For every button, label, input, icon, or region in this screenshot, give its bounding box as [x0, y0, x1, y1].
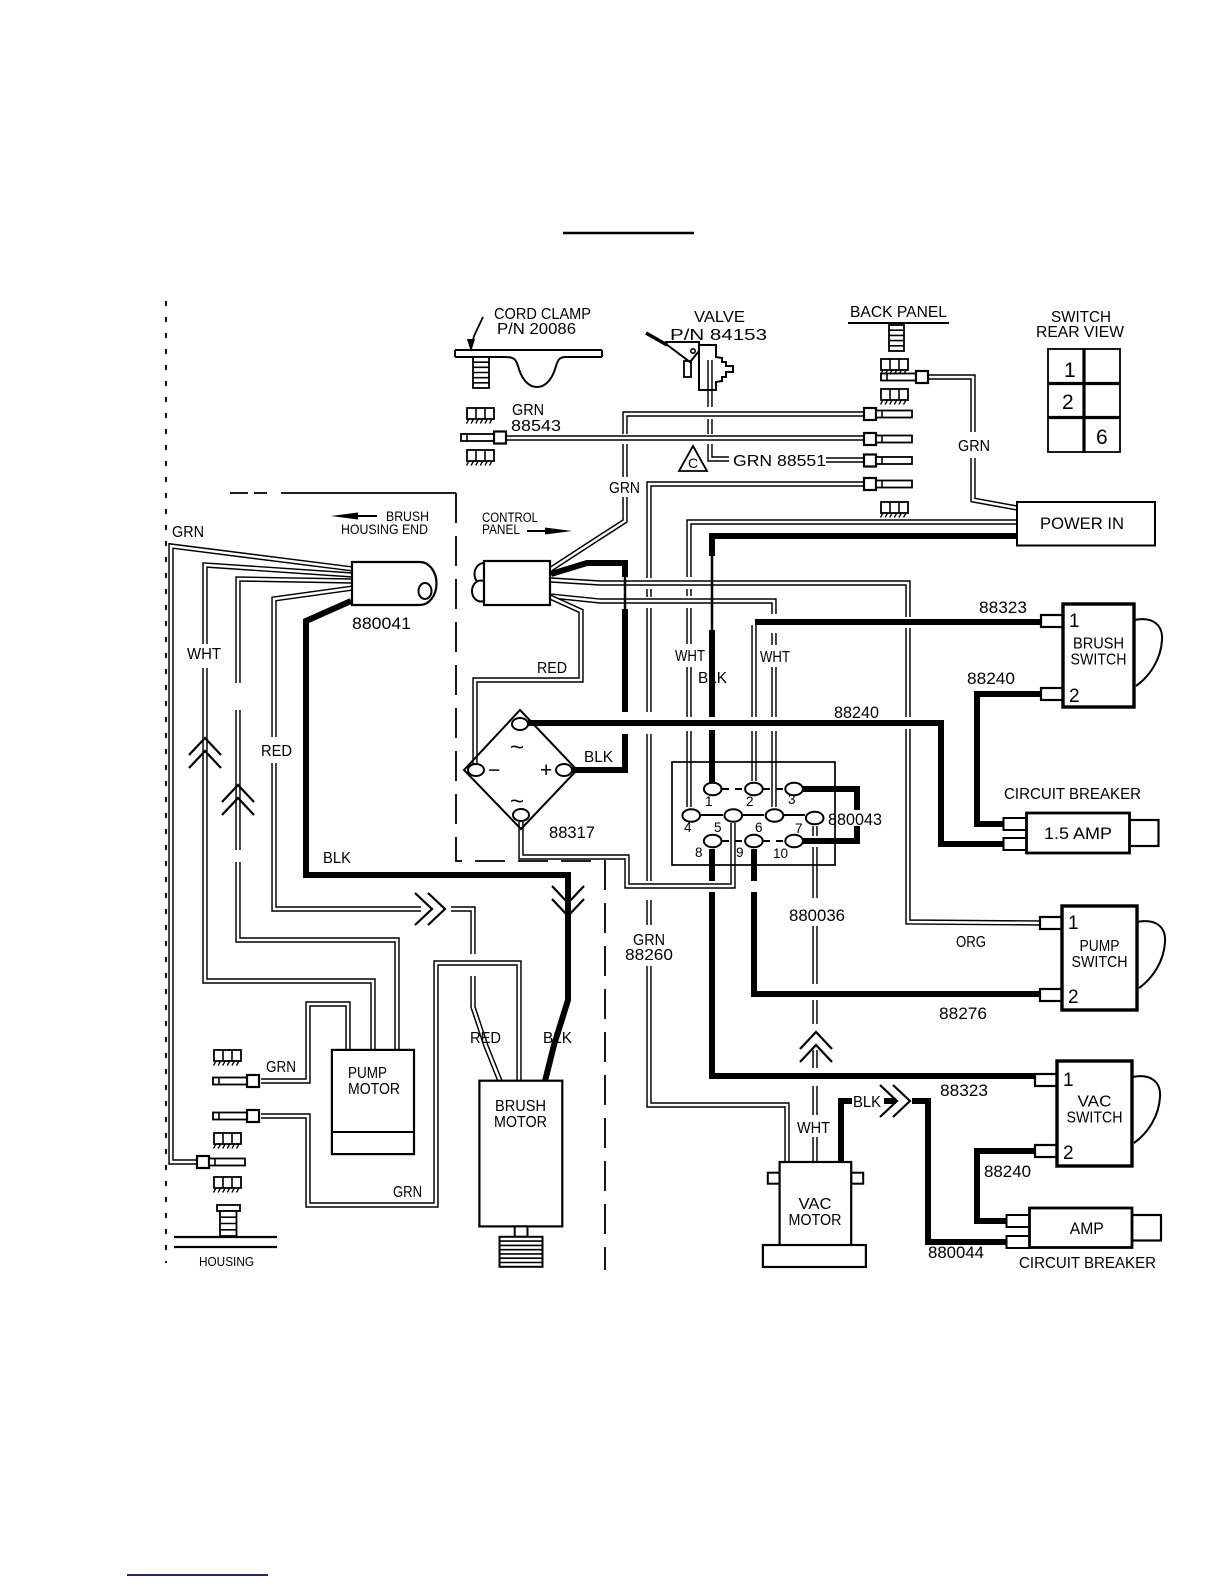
- svg-text:6: 6: [1096, 426, 1108, 449]
- svg-text:1: 1: [1064, 359, 1076, 382]
- svg-text:SWITCH: SWITCH: [1067, 1110, 1123, 1127]
- svg-text:2: 2: [1062, 391, 1074, 414]
- svg-text:ORG: ORG: [956, 934, 986, 951]
- svg-text:BLK: BLK: [853, 1094, 881, 1111]
- svg-text:GRN: GRN: [266, 1059, 296, 1076]
- svg-text:MOTOR: MOTOR: [789, 1212, 842, 1229]
- svg-text:GRN: GRN: [958, 438, 990, 455]
- svg-text:7: 7: [795, 821, 803, 836]
- svg-text:880036: 880036: [789, 907, 845, 925]
- svg-text:HOUSING: HOUSING: [199, 1254, 254, 1269]
- svg-text:9: 9: [736, 845, 744, 860]
- svg-text:PANEL: PANEL: [482, 522, 520, 537]
- svg-text:88323: 88323: [979, 599, 1027, 617]
- svg-text:88240: 88240: [834, 704, 879, 722]
- svg-text:BLK: BLK: [323, 850, 351, 867]
- svg-text:880043: 880043: [828, 811, 882, 829]
- svg-text:~: ~: [510, 734, 524, 761]
- svg-text:BLK: BLK: [584, 749, 613, 766]
- svg-text:VAC: VAC: [799, 1196, 832, 1213]
- svg-text:5: 5: [714, 820, 722, 835]
- svg-text:WHT: WHT: [797, 1120, 830, 1137]
- svg-text:880041: 880041: [352, 615, 411, 633]
- svg-text:BACK PANEL: BACK PANEL: [850, 304, 947, 321]
- svg-text:BLK: BLK: [698, 670, 727, 687]
- svg-text:SWITCH: SWITCH: [1072, 954, 1128, 971]
- svg-text:BRUSH: BRUSH: [1073, 636, 1124, 653]
- svg-text:REAR VIEW: REAR VIEW: [1036, 324, 1125, 341]
- svg-text:GRN: GRN: [393, 1184, 422, 1201]
- svg-text:+: +: [540, 759, 552, 782]
- svg-text:GRN 88551: GRN 88551: [733, 453, 826, 470]
- svg-text:P/N 20086: P/N 20086: [497, 321, 576, 338]
- svg-text:4: 4: [684, 820, 692, 835]
- svg-text:RED: RED: [537, 660, 567, 677]
- svg-text:2: 2: [1063, 1143, 1074, 1164]
- svg-text:1: 1: [1069, 611, 1080, 632]
- svg-text:1: 1: [1068, 913, 1079, 934]
- svg-text:MOTOR: MOTOR: [348, 1081, 400, 1098]
- svg-text:3: 3: [788, 792, 796, 807]
- svg-text:2: 2: [1068, 987, 1079, 1008]
- svg-text:VAC: VAC: [1078, 1094, 1112, 1111]
- svg-text:88260: 88260: [625, 947, 673, 964]
- svg-text:88240: 88240: [984, 1163, 1031, 1181]
- svg-text:P/N 84153: P/N 84153: [670, 327, 767, 344]
- svg-text:1: 1: [1063, 1070, 1074, 1091]
- svg-text:~: ~: [510, 788, 524, 815]
- svg-text:WHT: WHT: [675, 648, 705, 665]
- svg-text:MOTOR: MOTOR: [494, 1114, 547, 1131]
- svg-text:88317: 88317: [549, 824, 595, 842]
- svg-text:1.5 AMP: 1.5 AMP: [1044, 825, 1112, 843]
- svg-text:88543: 88543: [511, 418, 561, 435]
- svg-text:GRN: GRN: [172, 524, 204, 541]
- svg-text:RED: RED: [470, 1030, 501, 1047]
- svg-text:RED: RED: [261, 743, 292, 760]
- svg-text:8: 8: [695, 845, 703, 860]
- svg-text:C: C: [688, 455, 698, 471]
- svg-text:2: 2: [1069, 686, 1080, 707]
- svg-text:2: 2: [746, 794, 754, 809]
- svg-text:VALVE: VALVE: [694, 309, 745, 326]
- svg-text:6: 6: [755, 820, 763, 835]
- svg-text:GRN: GRN: [609, 480, 640, 497]
- svg-text:10: 10: [773, 846, 788, 861]
- svg-text:88276: 88276: [939, 1005, 987, 1023]
- svg-text:88323: 88323: [940, 1082, 988, 1100]
- svg-text:BLK: BLK: [543, 1030, 572, 1047]
- svg-text:88240: 88240: [967, 670, 1015, 688]
- svg-text:PUMP: PUMP: [1080, 938, 1120, 955]
- svg-text:−: −: [488, 759, 500, 782]
- svg-text:WHT: WHT: [187, 646, 221, 663]
- svg-text:PUMP: PUMP: [348, 1065, 387, 1082]
- svg-text:CIRCUIT BREAKER: CIRCUIT BREAKER: [1004, 786, 1141, 803]
- svg-text:CIRCUIT BREAKER: CIRCUIT BREAKER: [1019, 1255, 1156, 1272]
- svg-text:GRN: GRN: [512, 402, 544, 419]
- svg-text:WHT: WHT: [760, 649, 790, 666]
- svg-text:1: 1: [705, 794, 713, 809]
- svg-text:BRUSH: BRUSH: [495, 1098, 546, 1115]
- svg-text:AMP: AMP: [1070, 1220, 1104, 1238]
- svg-text:SWITCH: SWITCH: [1071, 652, 1127, 669]
- svg-text:POWER IN: POWER IN: [1040, 515, 1124, 533]
- svg-text:880044: 880044: [928, 1244, 984, 1262]
- svg-text:HOUSING END: HOUSING END: [341, 522, 428, 537]
